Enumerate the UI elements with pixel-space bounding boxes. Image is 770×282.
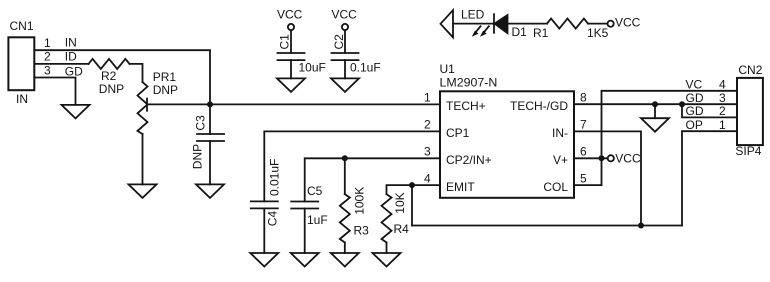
LED D1 cathode bar [493, 14, 495, 33]
ground (C5) [291, 253, 319, 267]
svg-text:3: 3 [719, 91, 726, 105]
svg-text:4: 4 [424, 171, 431, 185]
svg-text:ID: ID [65, 50, 77, 64]
wire C2 to ground [344, 60, 346, 78]
svg-text:IN: IN [16, 92, 28, 106]
ground (C2) [331, 78, 359, 92]
wire C5 to ground [304, 209, 306, 254]
svg-text:2: 2 [424, 118, 431, 132]
svg-text:R4: R4 [394, 222, 410, 236]
svg-text:C2: C2 [332, 34, 346, 50]
wire U1 pin8 to CN2 GD [574, 103, 737, 105]
svg-text:R2: R2 [101, 69, 117, 83]
wire pin4 node down to bottom net [411, 185, 413, 225]
wire VCC to C2 [344, 31, 346, 54]
svg-text:5: 5 [580, 171, 587, 185]
wire CN1 pin3 stub [34, 78, 75, 105]
svg-text:3: 3 [44, 63, 51, 77]
wire node to C3 [209, 104, 211, 134]
wire U1 pin7 down [574, 131, 641, 225]
svg-text:VC: VC [686, 77, 703, 91]
wire C1 to ground [290, 60, 292, 78]
wire U1 pin6 stub [574, 157, 608, 159]
wire VCC to C1 [290, 31, 292, 54]
net flag LED [441, 10, 454, 37]
svg-text:SIP4: SIP4 [735, 144, 761, 158]
svg-text:VCC: VCC [615, 151, 641, 165]
svg-text:100K: 100K [352, 187, 366, 215]
wire OP vertical [682, 131, 737, 225]
svg-text:2: 2 [44, 50, 51, 64]
junction node R3/pin3 [342, 155, 348, 161]
wire flag to D1 [453, 23, 494, 25]
svg-text:R1: R1 [533, 26, 549, 40]
VCC terminal C2 [342, 24, 348, 30]
wire U1 pin2 to C4 [264, 131, 440, 201]
svg-text:0.01uF: 0.01uF [268, 159, 282, 196]
svg-text:LM2907-N: LM2907-N [440, 76, 498, 90]
resistor R4 [382, 194, 392, 242]
junction node R4/pin4 [409, 182, 415, 188]
ground (CN1 GD) [62, 105, 90, 119]
svg-text:0.1uF: 0.1uF [350, 60, 381, 74]
wire PR1 wiper [147, 103, 210, 105]
svg-text:COL: COL [543, 180, 568, 194]
junction node GD ground [652, 101, 658, 107]
wire ground stub pin8 net [654, 104, 656, 118]
resistor R2 [89, 59, 130, 69]
ground (R4) [373, 253, 401, 267]
capacitor C3 [197, 134, 224, 141]
svg-text:DNP: DNP [153, 83, 178, 97]
resistor R3 [340, 194, 350, 242]
wire CN1 pin1 to node [34, 50, 210, 104]
capacitor C5 [291, 202, 318, 209]
svg-text:GD: GD [65, 65, 83, 79]
LED D1 body [495, 15, 508, 33]
svg-text:C5: C5 [307, 184, 323, 198]
wire R3 to ground [344, 243, 346, 254]
svg-text:C3: C3 [194, 115, 208, 131]
svg-text:GD: GD [686, 91, 704, 105]
svg-text:D1: D1 [512, 25, 528, 39]
wire U1 pin3 to C5 [305, 158, 440, 201]
svg-text:1: 1 [424, 91, 431, 105]
wire R3 top [344, 158, 346, 194]
svg-text:TECH-/GD: TECH-/GD [510, 99, 568, 113]
svg-text:2: 2 [719, 104, 726, 118]
LED emission arrow 1 [472, 26, 481, 36]
wire GD branch to CN2 pin2 [682, 104, 737, 117]
junction node pin6 VCC [599, 155, 605, 161]
svg-text:1: 1 [719, 118, 726, 132]
wire bottom net [412, 225, 682, 227]
capacitor C4 [251, 201, 278, 208]
svg-text:VCC: VCC [277, 8, 303, 22]
svg-text:IN: IN [65, 36, 77, 50]
pot wiper contact bar PR1 [146, 99, 148, 111]
svg-text:LED: LED [461, 8, 485, 22]
junction node GD branch [679, 101, 685, 107]
svg-text:1K5: 1K5 [587, 26, 609, 40]
connector CN1 [8, 37, 34, 90]
capacitor C2 [332, 53, 359, 60]
svg-text:TECH+: TECH+ [446, 99, 486, 113]
svg-text:DNP: DNP [191, 144, 205, 169]
svg-text:8: 8 [580, 91, 587, 105]
VCC terminal C1 [288, 24, 294, 30]
ground (C3) [196, 184, 224, 198]
svg-text:10uF: 10uF [299, 60, 326, 74]
svg-text:VCC: VCC [332, 8, 358, 22]
wire R2 to PR1 [130, 64, 143, 82]
svg-text:4: 4 [719, 77, 726, 91]
ground (TECH-/GD net) [641, 118, 669, 132]
junction node A (IN net) [207, 101, 213, 107]
wire PR1 bottom to ground [142, 134, 144, 184]
capacitor C1 [278, 53, 305, 60]
wire R1 to VCC [588, 23, 607, 25]
svg-text:C4: C4 [266, 211, 280, 227]
ground (R3) [331, 253, 359, 267]
svg-text:PR1: PR1 [153, 70, 177, 84]
svg-text:GD: GD [686, 104, 704, 118]
wire U1 pin4 to R4 [387, 185, 441, 194]
svg-text:3: 3 [424, 145, 431, 159]
svg-text:CN1: CN1 [10, 19, 34, 33]
svg-text:6: 6 [580, 145, 587, 159]
svg-text:CN2: CN2 [738, 63, 762, 77]
svg-text:DNP: DNP [99, 82, 124, 96]
VCC terminal pin6 [608, 155, 614, 161]
wire C4 to ground [263, 208, 265, 253]
ground (C1) [277, 78, 305, 92]
svg-text:V+: V+ [553, 153, 568, 167]
LED emission arrow 2 [480, 26, 489, 36]
resistor R1 [547, 19, 588, 29]
svg-text:OP: OP [686, 118, 703, 132]
VCC terminal R1 [608, 21, 614, 27]
wire U1 pin5 stub [574, 184, 602, 186]
wire C3 to ground [209, 141, 211, 184]
svg-text:IN-: IN- [552, 126, 568, 140]
ground (C4) [250, 253, 278, 267]
junction node bottom net [638, 223, 644, 229]
svg-text:7: 7 [580, 118, 587, 132]
svg-text:VCC: VCC [615, 16, 641, 30]
potentiometer PR1 [138, 82, 148, 134]
wire VC vertical [602, 91, 738, 185]
svg-text:1uF: 1uF [307, 213, 328, 227]
svg-text:R3: R3 [354, 224, 370, 238]
connector CN2 [737, 78, 763, 145]
main wire node to U1 pin1 [210, 103, 440, 105]
ground (PR1) [129, 184, 157, 198]
svg-text:1: 1 [44, 36, 51, 50]
svg-text:U1: U1 [440, 62, 456, 76]
svg-text:EMIT: EMIT [446, 180, 475, 194]
svg-text:C1: C1 [278, 34, 292, 50]
svg-text:CP1: CP1 [446, 126, 470, 140]
wire D1 to R1 [508, 23, 548, 25]
wire CN1 pin2 stub [34, 63, 88, 65]
wire R4 to ground [386, 243, 388, 254]
svg-text:CP2/IN+: CP2/IN+ [446, 153, 492, 167]
op IC U1 LM2907-N [440, 91, 574, 198]
svg-text:10K: 10K [393, 192, 407, 213]
